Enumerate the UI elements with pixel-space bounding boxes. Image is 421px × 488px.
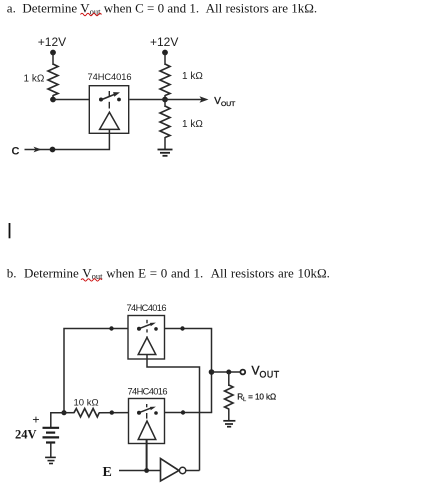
wire: inverter output to control rail <box>186 470 200 472</box>
svg-text:74HC4016: 74HC4016 <box>88 72 132 82</box>
wire: node to battery top <box>51 413 64 428</box>
switch S3 arm arrowhead <box>150 407 156 411</box>
terminal dot +12V right <box>162 50 168 56</box>
dot at U3 input <box>110 410 114 414</box>
inverter G1 bubble <box>179 467 185 473</box>
svg-text:VOUT: VOUT <box>214 96 235 108</box>
wire: U3 control stem down to E line <box>146 440 148 471</box>
svg-text:a. Determine Vout when C = 0: a. Determine Vout when C = 0 and 1. All … <box>7 1 317 17</box>
ground (RL, circuit b) <box>223 421 235 427</box>
switch S3 right pin dot <box>154 411 158 415</box>
wire: node to switch box U1 <box>53 99 90 101</box>
svg-text:VOUT: VOUT <box>252 364 280 380</box>
svg-text:E: E <box>103 465 112 480</box>
wire: R2 bottom to output node <box>164 95 166 100</box>
svg-text:+12V: +12V <box>150 35 178 49</box>
svg-text:24V: 24V <box>15 428 37 442</box>
wire: node to 10k resistor <box>64 412 75 414</box>
battery B1 24V plates <box>43 428 60 443</box>
switch S2 arm arrowhead <box>150 323 156 327</box>
dot at U2 output <box>180 326 184 330</box>
Vout junction dot (circuit b) <box>209 369 215 375</box>
output node dot (circuit a) <box>162 97 168 103</box>
svg-text:1 kΩ: 1 kΩ <box>182 119 203 130</box>
switch S1 right pin dot <box>117 98 121 102</box>
wire: U2 control stem to inverter output <box>147 355 200 471</box>
svg-text:C: C <box>12 146 20 158</box>
control buffer triangle (U3) <box>138 421 156 440</box>
wire: U3 output to output rail <box>165 412 213 414</box>
Vout arrowhead (circuit a) <box>200 96 209 103</box>
Vout open terminal (circuit b) <box>240 370 245 375</box>
node dot on C line <box>50 147 56 153</box>
svg-text:RL = 10 kΩ: RL = 10 kΩ <box>237 392 276 403</box>
wire: U1 output to Vout arrow <box>130 99 205 101</box>
junction dot E / U3 control <box>144 468 149 473</box>
C input arrow <box>25 149 51 151</box>
analog switch box U3 (bottom, circuit b) <box>129 399 165 444</box>
switch S3 arm <box>139 408 152 413</box>
text cursor bar <box>9 223 11 238</box>
svg-text:+12V: +12V <box>38 35 66 49</box>
wire: battery bottom to ground <box>50 443 52 458</box>
red squiggle under Vout (title b) <box>81 279 102 281</box>
svg-text:b. Determine Vout when E = 0: b. Determine Vout when E = 0 and 1. All … <box>7 265 330 281</box>
switch S2 dashed control line <box>146 320 148 338</box>
terminal dot +12V left <box>50 50 56 56</box>
title line b <box>7 265 330 281</box>
node dot (R1 / switch input, circuit a) <box>50 97 56 103</box>
analog switch box U2 (top, circuit b) <box>128 316 165 360</box>
wire: 10k resistor to U3 input <box>99 412 129 414</box>
resistor R1 1k (left pullup, circuit a) <box>48 64 58 96</box>
wire: U2 output to output rail <box>165 328 213 330</box>
resistor 10k (series, circuit b) <box>74 409 99 417</box>
switch S1 arm arrowhead <box>113 92 120 97</box>
switch S2 arm <box>139 324 152 329</box>
control buffer triangle (U2) <box>138 338 156 355</box>
analog switch box U1 (74HC4016, circuit a) <box>89 86 128 134</box>
svg-text:1 kΩ: 1 kΩ <box>182 71 203 82</box>
wire: RL top <box>228 372 230 386</box>
resistor R3 1k (to ground, circuit a) <box>164 100 166 108</box>
wire: RL bottom to ground <box>228 409 230 421</box>
left rail: node up to top wire (circuit b) <box>64 329 128 413</box>
svg-text:74HC4016: 74HC4016 <box>127 303 167 313</box>
svg-text:+: + <box>32 412 39 427</box>
switch S2 right pin dot <box>154 327 158 331</box>
dot at U3 output <box>181 410 185 414</box>
svg-text:74HC4016: 74HC4016 <box>128 387 168 397</box>
ground (battery, circuit b) <box>45 457 56 463</box>
node dot (battery / rail junction) <box>61 410 66 415</box>
red squiggle under Vout (title a) <box>81 13 102 15</box>
output rail vertical (circuit b) <box>211 329 213 413</box>
switch S3 left pin dot <box>137 411 141 415</box>
resistor R2 1k (right pullup, circuit a) <box>160 64 170 96</box>
inverter G1 triangle <box>161 459 180 482</box>
ground (circuit a) <box>158 150 173 156</box>
switch S1 arm <box>101 94 115 100</box>
dot at RL top <box>226 370 231 375</box>
switch S2 left pin dot <box>137 327 141 331</box>
control buffer triangle (U1) <box>100 112 120 129</box>
switch S3 dashed control line <box>146 404 148 419</box>
wire: +12V right terminal down to resistor R2 <box>164 53 166 65</box>
switch S1 left pin dot <box>99 98 103 102</box>
wire: R1 bottom to node <box>52 95 54 100</box>
svg-text:10 kΩ: 10 kΩ <box>74 398 99 409</box>
wire: E to inverter input <box>119 470 161 472</box>
switch S1 dashed control line <box>108 91 110 109</box>
dot on top rail <box>109 326 113 330</box>
svg-text:1 kΩ: 1 kΩ <box>24 74 45 85</box>
wire: U1 control stem down <box>53 129 110 149</box>
wire: junction to Vout terminal <box>212 371 241 373</box>
wire: +12V left terminal down to resistor R1 <box>52 53 54 65</box>
title line a <box>7 1 317 17</box>
wire: R3 bottom to ground <box>164 137 166 150</box>
resistor RL (load, circuit b) <box>225 385 233 409</box>
